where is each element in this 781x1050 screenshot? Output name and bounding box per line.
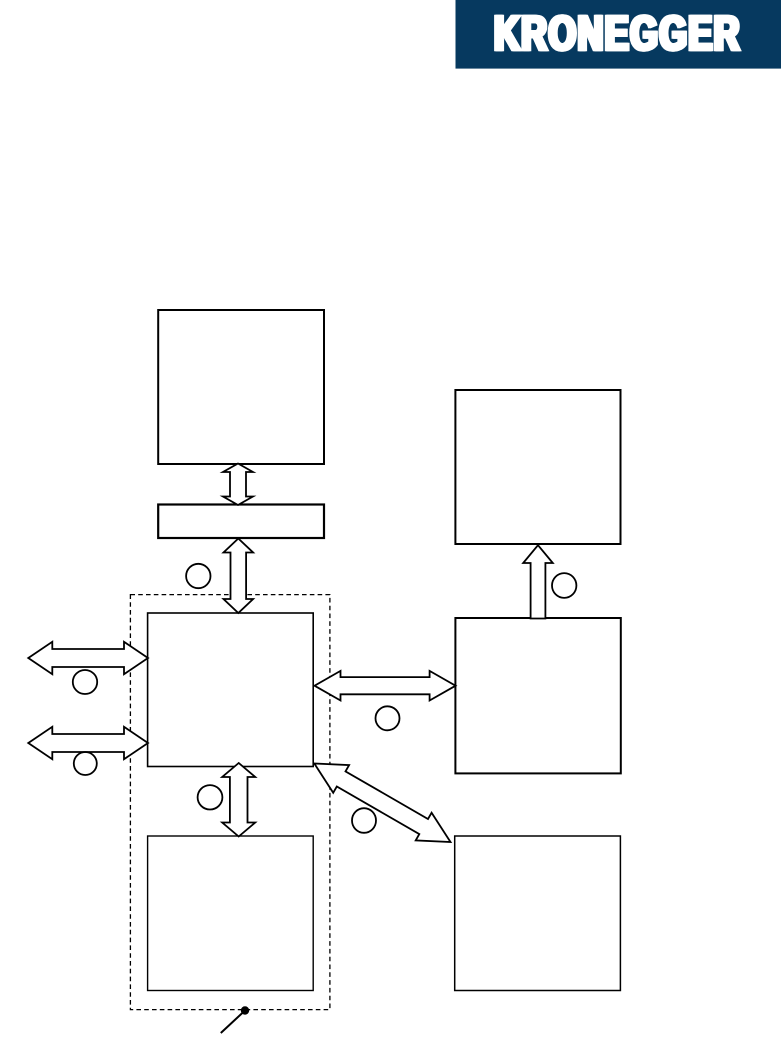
box B1 top-left: [158, 310, 324, 464]
dashed group rectangle: [130, 595, 330, 1010]
callout dot on dashed border: [241, 1006, 249, 1014]
circle c6: [352, 808, 376, 833]
arrow B vertical double between B2 and B3: [224, 539, 254, 614]
circle c5: [198, 785, 223, 809]
logo banner: [456, 0, 781, 69]
arrow A vertical double between B1 and B2: [223, 464, 253, 506]
box B2 thin: [158, 505, 324, 539]
box B4 bottom-left: [148, 836, 314, 991]
arrow C horizontal double left upper: [28, 642, 148, 674]
arrow E horizontal double between B3 and B6: [315, 671, 456, 701]
arrow H single up between B6 and B5: [523, 545, 553, 618]
circle c1: [186, 564, 210, 588]
box B3 main: [148, 613, 314, 767]
circle c3: [74, 752, 97, 775]
logo text KRONEGGER: [496, 16, 740, 50]
box B5 top-right: [455, 390, 620, 544]
box B7 bottom-right: [455, 836, 621, 991]
circle c4: [376, 706, 400, 730]
box B6 middle-right: [455, 618, 620, 773]
circle c7: [552, 573, 576, 598]
callout line: [221, 1011, 245, 1034]
circle c2: [73, 670, 97, 694]
arrow F diagonal double between B3 and B7: [314, 764, 450, 843]
arrow G vertical double between B3 and B4: [222, 763, 255, 837]
arrow D horizontal double left lower: [28, 727, 148, 759]
